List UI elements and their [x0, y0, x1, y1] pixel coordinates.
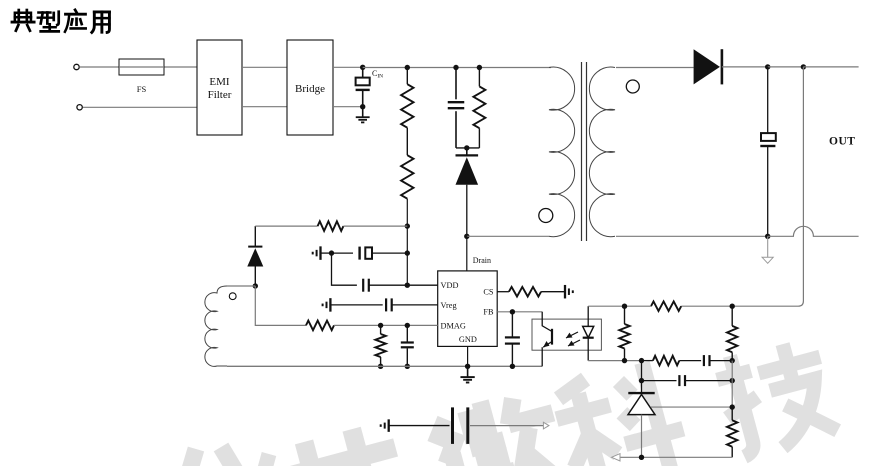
aux phase dot — [229, 293, 236, 300]
wire bridge to CIN bottom — [333, 106, 363, 108]
opto LED — [583, 306, 594, 360]
pin label DMAG — [441, 321, 466, 330]
node CIN bottom — [360, 104, 365, 109]
wire aux diode top — [255, 225, 317, 227]
snubber capacitor — [448, 68, 465, 148]
aux winding — [205, 286, 227, 366]
node led bias bottom — [622, 358, 627, 363]
label OUT — [829, 136, 855, 148]
capacitor C vdd2 — [363, 279, 438, 292]
wire rail to R startup1 — [406, 68, 408, 85]
opto led arrows — [566, 332, 580, 346]
node snubber res top — [477, 65, 482, 70]
wire divider segment — [731, 361, 733, 408]
wire secondary return with hop — [768, 226, 859, 236]
svg-text:Drain: Drain — [473, 256, 491, 265]
node dmag C at bus — [405, 364, 410, 369]
wire CS pin — [497, 291, 509, 293]
svg-text:VDD: VDD — [441, 281, 459, 290]
wire tl431 ref — [651, 406, 732, 408]
output ground arrow — [762, 236, 773, 263]
resistor R cs — [509, 287, 541, 297]
bridge rectifier block — [287, 40, 333, 135]
pin label FB — [483, 308, 494, 317]
wire FB pin — [497, 311, 542, 313]
wire out node to FB tap — [768, 66, 804, 68]
svg-text:EMI: EMI — [209, 76, 230, 88]
wire down to VDD cap node — [406, 226, 408, 253]
fuse FS — [119, 59, 164, 75]
transformer core — [582, 62, 587, 241]
capacitor C comp — [679, 355, 732, 366]
svg-text:DMAG: DMAG — [441, 321, 466, 330]
node VDD bulk cap — [405, 250, 410, 255]
wire between startup resistors — [406, 128, 408, 156]
node led bias top — [622, 304, 627, 309]
secondary gnd arrow left — [612, 454, 621, 461]
wire input top to EMI filter — [80, 66, 197, 68]
aux diode D3 — [247, 226, 263, 286]
wire aux winding stub — [227, 285, 255, 287]
wire EMI to bridge bottom — [242, 106, 287, 108]
wire drain to primary bottom — [467, 235, 549, 237]
wire diode to out node — [722, 66, 768, 68]
transformer primary winding — [549, 67, 575, 237]
vreg ground — [323, 298, 331, 312]
node dmag R at bus — [378, 364, 383, 369]
node dmag R filter — [378, 323, 383, 328]
input terminal J1 (line) — [74, 64, 79, 69]
node snubber bottom — [464, 145, 469, 150]
vdd top ground — [313, 246, 321, 260]
svg-text:GND: GND — [459, 335, 477, 344]
resistor R divider upper — [727, 306, 737, 360]
svg-text:Vreg: Vreg — [441, 301, 457, 310]
resistor R divider lower — [727, 407, 737, 457]
node comp cap2 left — [639, 378, 644, 383]
output diode D2 — [694, 49, 722, 84]
node output cap bottom — [765, 234, 770, 239]
node dmag C filter — [405, 323, 410, 328]
wire gnd to vdd cap — [321, 252, 332, 254]
svg-text:CS: CS — [483, 288, 494, 297]
capacitor C vdd bulk (polarized) — [332, 247, 408, 260]
wire drain down to IC — [466, 236, 468, 271]
node FB tap — [801, 64, 806, 69]
primary ground symbol — [460, 366, 474, 382]
node tl431 anode — [639, 455, 644, 460]
wire FB tap down — [732, 67, 803, 306]
node divider mid-lower — [730, 404, 735, 409]
node IC gnd at bus — [465, 364, 470, 369]
wire EMI to bridge top — [242, 66, 287, 68]
pin label GND — [459, 335, 477, 344]
opto transistor — [542, 312, 552, 367]
shunt regulator TL431 — [628, 393, 655, 457]
node HV rail / CIN top — [360, 65, 365, 70]
svg-text:Bridge: Bridge — [295, 83, 325, 95]
wire bridge to HV rail — [333, 66, 363, 68]
wire startup chain down — [406, 199, 408, 226]
label FS — [137, 84, 147, 94]
svg-text:FS: FS — [137, 84, 147, 94]
capacitor CIN (polarized) — [356, 67, 370, 106]
node vdd cap left — [329, 250, 334, 255]
wire dmag to pin — [334, 324, 438, 326]
wire dmag branch down — [255, 286, 306, 325]
wire secondary top to diode — [616, 67, 694, 69]
node aux charge join — [405, 223, 410, 228]
secondary phase dot — [626, 80, 639, 93]
input terminal J2 (neutral) — [77, 105, 82, 110]
wire led anode line — [588, 305, 651, 307]
wire down to VDD line — [406, 253, 408, 285]
wire input bottom to EMI filter — [83, 106, 197, 108]
resistor R aux-vdd — [318, 221, 344, 231]
node output cap top — [765, 64, 770, 69]
wire snubber bottom join — [456, 147, 479, 149]
snubber resistor — [473, 68, 485, 148]
svg-text:FB: FB — [483, 308, 494, 317]
node aux winding top — [253, 283, 258, 288]
resistor R dmag — [306, 321, 334, 331]
wire vdd caps left leg — [332, 253, 357, 285]
resistor R led series — [651, 301, 681, 311]
label Drain — [473, 256, 491, 265]
svg-text:OUT: OUT — [829, 136, 855, 148]
node fb divider top — [730, 304, 735, 309]
cs ground — [565, 285, 573, 299]
node divider mid-upper — [730, 358, 735, 363]
watermark gray CJK glyphs (hand-drawn) — [188, 333, 840, 466]
wire R aux-vdd to node — [343, 225, 407, 227]
node VDD pin line — [405, 283, 410, 288]
y-cap secondary arrow — [543, 422, 549, 429]
node fb cap at bus — [510, 364, 515, 369]
node comp cap2 right — [730, 378, 735, 383]
wire secondary gnd bottom — [620, 456, 732, 458]
resistor R startup1 — [401, 84, 413, 128]
wire HV rail CIN to transformer — [363, 67, 551, 69]
resistor R dmag-gnd — [375, 325, 385, 366]
wire out rail end — [803, 66, 858, 68]
wire cs to ground — [541, 291, 565, 293]
resistor R startup2 — [401, 155, 413, 199]
title: 典型应用 (Typical Application) hand-drawn — [12, 10, 109, 33]
wire vout fb line — [681, 305, 732, 307]
label CIN — [372, 69, 383, 80]
resistor R led bias — [619, 306, 629, 360]
pin label VDD — [441, 281, 459, 290]
wire led cathode line — [588, 360, 641, 362]
clamp diode D1 — [456, 148, 479, 236]
wire tl431 cathode down — [641, 361, 643, 394]
capacitor C fb — [505, 312, 520, 367]
node snubber cap top — [453, 65, 458, 70]
primary phase dot — [539, 209, 553, 223]
transformer secondary winding — [589, 67, 615, 237]
node tl431 cathode top — [639, 358, 644, 363]
wire secondary bottom — [616, 235, 768, 237]
node FB cap — [510, 309, 515, 314]
resistor R comp — [642, 356, 680, 366]
controller IC U1 — [438, 271, 498, 347]
node drain — [464, 234, 469, 239]
pin label Vreg — [441, 301, 457, 310]
pin label CS — [483, 288, 494, 297]
optocoupler U2 box — [532, 319, 601, 350]
capacitor C comp2 — [642, 375, 733, 386]
ground below CIN — [356, 107, 370, 123]
EMI filter block — [197, 40, 242, 135]
primary ground bus — [227, 365, 542, 367]
IC gnd wire — [467, 346, 469, 366]
y-cap primary ground — [381, 419, 389, 432]
y-capacitor CY — [389, 407, 544, 444]
node startup chain top — [405, 65, 410, 70]
output capacitor COUT (polarized) — [760, 67, 776, 236]
capacitor C dmag-gnd — [401, 325, 414, 366]
capacitor C vreg — [330, 298, 437, 311]
svg-text:Filter: Filter — [208, 89, 232, 101]
